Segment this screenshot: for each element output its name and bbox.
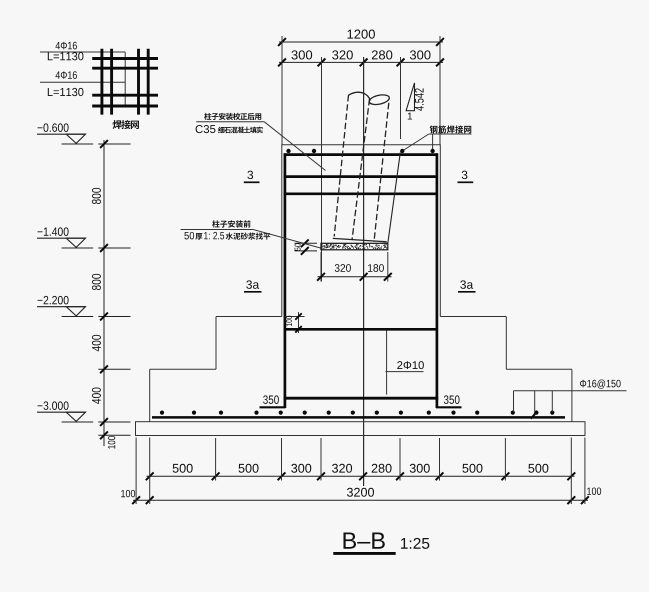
pedestal right wall (thick) xyxy=(436,153,439,408)
left dimension line: tick stubs xyxy=(98,143,130,145)
elevation marker -1.400 xyxy=(38,227,69,235)
footing bottom rebar (thick line) xyxy=(152,416,565,419)
extension line at x=321.5 xyxy=(321,57,323,282)
left dimension label 800 (lower) xyxy=(92,274,101,290)
welded mesh detail: caption hanjiewang xyxy=(113,120,139,129)
footing rebar dots xyxy=(160,411,164,415)
welded mesh detail: 4 thick vertical bars xyxy=(100,49,103,115)
label 350 (right) xyxy=(444,395,460,403)
pedestal top thick line xyxy=(284,153,438,156)
welded mesh detail: leader line 1 xyxy=(40,51,125,53)
step level 2 top lines xyxy=(150,368,216,370)
top dimension line 1200 xyxy=(279,41,443,43)
column pipes middle shared edge xyxy=(352,99,370,240)
label phi16@150 xyxy=(580,379,621,388)
slope triangle 1:4.542 xyxy=(406,83,414,111)
pedestal bottom thick line xyxy=(284,397,439,400)
elevation marker -2.200 xyxy=(38,296,69,304)
welded mesh detail: label L=1130 (bottom) xyxy=(48,88,84,96)
section label 3 (right) xyxy=(462,171,468,179)
elevation marker -3.000 xyxy=(38,401,69,409)
welded mesh detail: 4 thick horizontal bars xyxy=(92,57,158,60)
mortar bed outline xyxy=(321,243,388,250)
title underline xyxy=(333,552,395,555)
welded mesh detail: label 4phi16 (top) xyxy=(56,42,77,50)
note leader to 50 dim xyxy=(253,230,320,249)
note line2: C35 xyxy=(196,125,216,133)
section label 3a (right) xyxy=(460,280,473,288)
title B-B xyxy=(343,533,384,549)
step level 1 top lines xyxy=(216,316,282,318)
title scale 1:25 xyxy=(401,538,429,549)
leader drop to right mesh dot xyxy=(432,134,434,151)
note: before column installation (line1) xyxy=(212,220,250,227)
bottom extension lines xyxy=(135,438,137,505)
note line2 cjk part xyxy=(218,127,263,134)
left dimension label 100 (slab) xyxy=(108,436,115,449)
welded mesh detail: thin vertical connector xyxy=(124,52,126,105)
note: fill with C35 concrete after column adjustment (line1) xyxy=(204,113,261,120)
mortar bed stipple xyxy=(322,244,387,249)
step level 2 verticals xyxy=(149,369,151,421)
note line2: 50 xyxy=(184,232,194,240)
left dimension label 400 (upper) xyxy=(92,335,101,351)
note line2 cjk part xyxy=(226,232,271,239)
welded mesh detail: leader line 2 xyxy=(40,81,125,83)
column pipe right edge (dashed) xyxy=(374,103,389,242)
mortar 50 dim label xyxy=(295,243,301,250)
pedestal left wall (thick) xyxy=(284,153,287,408)
note underline xyxy=(196,121,264,123)
label 350 (left) xyxy=(263,395,279,403)
bottom dim row 1 xyxy=(147,475,575,477)
socket bottom 100 dim stub xyxy=(285,316,305,318)
left dimension label 800 (upper) xyxy=(92,188,101,204)
label underline xyxy=(429,133,472,135)
column right pipe top ellipse xyxy=(368,93,390,106)
pedestal band line 3 xyxy=(284,192,438,195)
note line2 hou xyxy=(195,233,202,240)
welded mesh detail: label 4phi16 (bottom) xyxy=(56,71,77,79)
extension lines for 320/180 xyxy=(320,252,322,282)
pedestal band line 2 xyxy=(284,175,438,178)
pipe inner edge line (solid, right) xyxy=(388,153,401,244)
center line at x=363.6 xyxy=(363,57,365,486)
left dimension line (vertical) xyxy=(103,140,105,446)
left dimension label 400 (lower) xyxy=(92,387,101,403)
column left pipe top arc xyxy=(349,92,371,100)
top dimension line 300/320/280/300 xyxy=(279,61,443,63)
extension line at x=282 xyxy=(281,36,283,145)
column pipe left edge (dashed) xyxy=(334,95,348,237)
step level 1 verticals xyxy=(215,317,217,370)
socket bottom 100 dim ticks xyxy=(295,313,302,320)
mortar 50 dim stub lines xyxy=(295,242,318,244)
extension line at x=440 xyxy=(439,36,441,145)
leader arrow slash xyxy=(531,411,537,419)
socket bottom slab thick line xyxy=(286,328,436,331)
elevation marker -0.600 xyxy=(38,123,69,131)
socket bottom 100 dim line xyxy=(298,312,300,333)
column pipes bottom edge xyxy=(333,238,387,241)
bottom dim row 2 (3200) xyxy=(133,499,588,501)
pedestal thin outline xyxy=(282,145,441,317)
label 2phi10 xyxy=(397,361,424,369)
leader to left mesh dot xyxy=(402,134,429,151)
note underline xyxy=(181,229,254,231)
section label 3 (left) xyxy=(247,171,253,179)
mesh bar dots on pedestal top xyxy=(286,149,290,153)
blinding slab outline xyxy=(136,422,586,436)
dim line 320/180 xyxy=(318,276,392,278)
welded mesh detail: label L=1130 (top) xyxy=(48,52,84,60)
extension line at x=400.5 xyxy=(400,57,402,139)
note leader into socket xyxy=(264,122,325,171)
section label 3a (left) xyxy=(246,280,259,288)
label: steel welded mesh (gangjin hanjiewang) xyxy=(430,125,472,133)
